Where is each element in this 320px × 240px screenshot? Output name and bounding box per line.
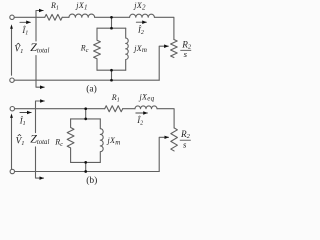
svg-text:Î1: Î1 — [19, 115, 26, 127]
wire (a): jX1 to jX2 through node — [95, 16, 130, 18]
svg-text:Ztotal: Ztotal — [30, 40, 49, 55]
inductor jX1 (a) — [69, 14, 95, 17]
junction dot node C rail (b) — [84, 118, 87, 121]
current arrow I2 (b) — [136, 112, 148, 114]
voltage arrow V1 (a) — [11, 26, 13, 75]
junction dot node C top (b) — [84, 107, 87, 110]
junction dot node B rail (a) — [110, 69, 113, 72]
wire top (a): terminal to R1 — [14, 16, 45, 18]
fraction bar (b) — [180, 139, 191, 141]
node A stub (a): top wire to magnetizing rail — [111, 17, 113, 28]
current arrow I2 (a) — [136, 21, 146, 23]
junction dot node A top (a) — [110, 16, 113, 19]
wire (b): bottom rail of parallel branch — [71, 161, 101, 163]
current arrow I1 (b) — [20, 112, 31, 114]
voltage arrow V1 (b) — [11, 115, 13, 168]
wire bottom (b): terminal to rheostat bend — [15, 171, 160, 173]
svg-text:Rc: Rc — [80, 43, 89, 54]
svg-text:(a): (a) — [86, 84, 97, 95]
junction dot node D bottom (b) — [84, 170, 87, 173]
impedance bracket Ztotal (a) — [36, 11, 43, 42]
wire (a): top rail of parallel branch — [97, 27, 126, 29]
junction dot node A rail (a) — [110, 27, 113, 30]
hat of V1 (a) — [17, 43, 20, 45]
resistor R1 (a) — [45, 14, 62, 20]
svg-text:jX1: jX1 — [75, 1, 88, 11]
svg-text:V1: V1 — [14, 44, 23, 55]
inductor jXm (b): vertical branch — [100, 119, 103, 162]
svg-text:jXm: jXm — [133, 44, 147, 54]
node C stub (b): top wire to magnetizing rail — [85, 109, 87, 119]
impedance bracket Ztotal (b) — [36, 101, 45, 133]
terminal bottom-left (b) — [10, 169, 14, 173]
svg-text:V1: V1 — [16, 136, 25, 147]
svg-text:Ztotal: Ztotal — [30, 131, 49, 146]
wire (a): rheostat wiper arrow into R2/s — [159, 46, 168, 80]
hat of V1 (b) — [18, 135, 21, 137]
svg-text:s: s — [184, 49, 188, 59]
junction dot node D rail (b) — [84, 161, 87, 164]
resistor R1 (b) — [105, 106, 123, 112]
wire (a): R1 to jX1 — [62, 16, 69, 18]
terminal top-left (a) — [10, 15, 14, 19]
wire (b): top rail of parallel branch — [71, 118, 101, 120]
resistor Rc (a): vertical branch — [94, 28, 101, 70]
svg-text:Î2: Î2 — [136, 115, 143, 127]
node B stub (a): rail to bottom wire — [111, 70, 113, 80]
inductor jXeq (b) — [135, 106, 157, 109]
wire top (b): terminal to R1 — [15, 108, 105, 110]
node D stub (b): rail to bottom wire — [85, 162, 87, 171]
svg-text:R1: R1 — [50, 1, 59, 12]
wire (a): jX2 to top-right corner, down to R2/s — [154, 17, 174, 39]
fraction bar (a) — [180, 49, 191, 51]
svg-text:jXm: jXm — [107, 136, 121, 146]
inductor jX2 (a) — [130, 14, 155, 17]
wire (b): jXeq to top-right corner, down to R2/s — [157, 109, 174, 128]
terminal top-left (b) — [10, 107, 14, 111]
resistor R2/s (a) — [171, 40, 178, 58]
wire (b): R1 to jXeq — [123, 108, 135, 110]
current arrow I1 (a) — [20, 21, 31, 23]
svg-text:s: s — [183, 139, 187, 149]
svg-text:(b): (b) — [86, 175, 97, 186]
inductor jXm (a): vertical branch — [126, 28, 129, 70]
wire bottom (a): terminal to rheostat bend — [14, 79, 159, 81]
junction dot node B bottom (a) — [110, 79, 113, 82]
svg-text:Î1: Î1 — [21, 25, 28, 37]
svg-text:Rc: Rc — [54, 138, 63, 149]
resistor R2/s (b) — [171, 128, 178, 151]
wire (b): rheostat wiper arrow into R2/s — [159, 137, 168, 171]
svg-text:R1: R1 — [111, 93, 120, 103]
terminal bottom-left (a) — [10, 78, 14, 82]
svg-text:jX2: jX2 — [133, 1, 146, 11]
resistor Rc (b): vertical branch — [67, 119, 74, 162]
svg-text:jXeq: jXeq — [139, 92, 155, 102]
wire (a): bottom rail of parallel branch — [97, 69, 126, 71]
svg-text:Î2: Î2 — [137, 25, 144, 37]
